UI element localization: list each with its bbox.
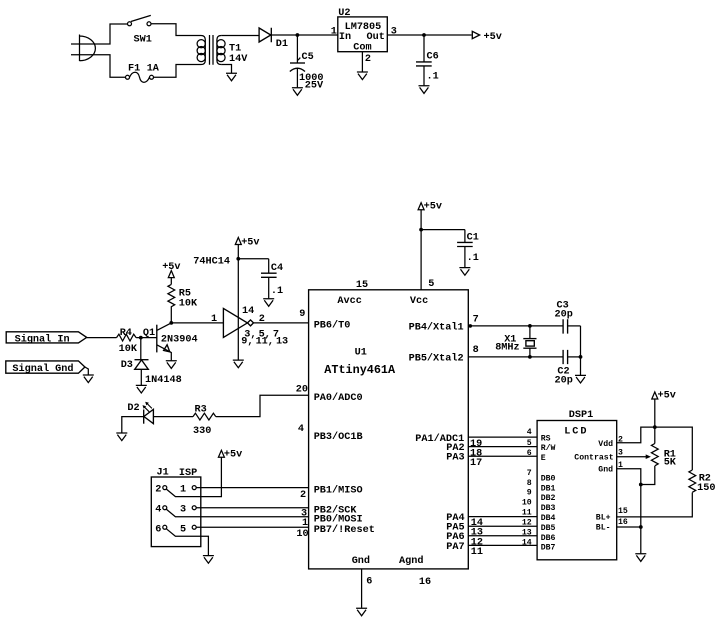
+5v symbol above C1 (418, 203, 424, 210)
svg-text:D3: D3 (121, 360, 133, 371)
transformer T1 (197, 35, 225, 65)
svg-text:ATtiny461A: ATtiny461A (324, 363, 396, 377)
wire C3 right down to C2 (580, 326, 582, 375)
node dot R1 bottom (639, 483, 643, 487)
capacitor C6 (416, 35, 432, 85)
svg-text:+5v: +5v (224, 450, 242, 461)
svg-text:DB4: DB4 (541, 514, 556, 523)
svg-text:3: 3 (391, 26, 397, 37)
power wire through inverter (237, 245, 239, 360)
ground C1 (459, 268, 470, 276)
ground 74HC14 (233, 360, 244, 368)
svg-text:.1: .1 (427, 71, 439, 82)
svg-text:.1: .1 (467, 253, 479, 264)
svg-text:10: 10 (296, 529, 308, 540)
pin 3 circle (192, 506, 196, 510)
svg-text:C1: C1 (467, 232, 479, 243)
svg-text:PB7/!Reset: PB7/!Reset (314, 524, 375, 536)
svg-text:17: 17 (470, 458, 482, 469)
wire R1 bottom (641, 466, 655, 485)
ground Q1 emitter (166, 361, 177, 369)
wire R2 to BL+ (617, 493, 693, 517)
wire pin7 to C3 (468, 325, 563, 327)
svg-text:C6: C6 (427, 52, 439, 63)
ground LCD rail (635, 554, 646, 562)
wire D1 to U2 (271, 34, 338, 36)
svg-text:+5v: +5v (484, 32, 502, 43)
svg-text:9: 9 (527, 489, 532, 498)
svg-text:Agnd: Agnd (399, 555, 423, 567)
fuse F1 (126, 72, 154, 82)
svg-text:6: 6 (366, 577, 372, 588)
svg-text:5: 5 (180, 524, 186, 535)
IC U1 ATtiny461A (309, 290, 469, 569)
svg-text:PB3/OC1B: PB3/OC1B (314, 431, 363, 443)
svg-text:4: 4 (298, 424, 304, 435)
svg-text:PB5/Xtal2: PB5/Xtal2 (409, 353, 464, 365)
ground C5 (292, 88, 303, 96)
svg-text:BL+: BL+ (596, 514, 611, 523)
svg-text:Vdd: Vdd (598, 439, 613, 449)
AC plug P (71, 35, 95, 62)
capacitor C1 (457, 230, 473, 268)
svg-text:74HC14: 74HC14 (193, 256, 230, 267)
diode D3 (135, 338, 149, 385)
wire fuse to T1 (154, 65, 202, 78)
svg-text:10K: 10K (179, 299, 198, 310)
node dot BL- (639, 525, 643, 529)
wire PA7 to DB7 (468, 544, 537, 546)
svg-text:10K: 10K (119, 344, 138, 355)
wire pin2 to +5v (166, 457, 221, 496)
svg-text:.1: .1 (271, 286, 283, 297)
display DSP1 LCD (537, 421, 617, 560)
svg-text:PA0/ADC0: PA0/ADC0 (314, 392, 363, 404)
svg-text:Out: Out (367, 32, 385, 43)
resistor R5 (168, 278, 175, 323)
capacitor C4 (261, 259, 277, 299)
capacitor C3 (563, 319, 580, 333)
wire PA5 to DB5 (468, 525, 537, 527)
wire to C1 (421, 229, 465, 231)
svg-text:5: 5 (527, 439, 532, 448)
resistor R2 (689, 470, 696, 492)
svg-text:U1: U1 (355, 347, 367, 358)
svg-text:1: 1 (211, 314, 217, 325)
svg-text:14: 14 (242, 306, 254, 317)
LED D2 (122, 402, 154, 433)
wire pin8 to C2 (468, 356, 563, 358)
node dot C1 branch (419, 228, 423, 232)
svg-text:8MHz: 8MHz (495, 342, 519, 353)
svg-text:9: 9 (299, 309, 305, 320)
node dot C6 (422, 33, 426, 37)
crystal X1 (523, 326, 536, 357)
wire plug to switch (92, 24, 128, 44)
svg-text:5: 5 (428, 279, 434, 290)
svg-text:DB6: DB6 (541, 534, 556, 543)
dot pin7 (469, 324, 473, 328)
wire T1 secondary to ground (221, 65, 231, 74)
svg-text:13: 13 (522, 528, 532, 537)
svg-text:7: 7 (527, 469, 532, 478)
pin 5 circle (192, 525, 196, 529)
svg-text:Q1: Q1 (143, 328, 155, 339)
node dot D1/C5 (296, 33, 300, 37)
pin 1 circle (192, 486, 196, 490)
ground T1 (226, 73, 237, 81)
connector J1 ISP (151, 477, 201, 547)
svg-text:8: 8 (527, 479, 532, 488)
wire U2 out to +5v (387, 34, 471, 36)
svg-text:15: 15 (618, 507, 628, 516)
node dot C2 right (579, 355, 583, 359)
wire plug to fuse (92, 55, 126, 78)
svg-text:DB7: DB7 (541, 544, 556, 553)
+5v output arrow (472, 31, 479, 38)
node dot +5v rail (653, 425, 657, 429)
wire collector to inverter (171, 322, 223, 324)
wire +5v to U1 Vcc (420, 210, 422, 290)
+5v symbol 74HC14 (235, 238, 241, 245)
node dot xtal top (528, 324, 532, 328)
svg-text:DB1: DB1 (541, 484, 556, 493)
svg-text:6: 6 (155, 524, 161, 535)
capacitor C2 (563, 350, 580, 364)
svg-text:2: 2 (300, 490, 306, 501)
wire to C4 (238, 258, 268, 260)
svg-text:14: 14 (522, 538, 532, 547)
wire PA1 to RS (468, 436, 537, 438)
ground D2 (116, 433, 127, 441)
svg-text:10: 10 (522, 499, 532, 508)
svg-text:7: 7 (473, 315, 479, 326)
svg-text:15: 15 (356, 280, 368, 291)
wire R4 to Q1 base (136, 337, 157, 339)
svg-text:J1: J1 (157, 467, 169, 478)
svg-text:150: 150 (697, 483, 715, 494)
ground Signal Gnd (83, 375, 94, 383)
svg-text:C5: C5 (302, 52, 314, 63)
wire T1 to D1 (221, 35, 259, 37)
ground D3 (136, 385, 147, 393)
wire Signal Gnd to ground (85, 367, 88, 375)
wire rail to R2 (655, 427, 693, 470)
svg-text:LCD: LCD (564, 427, 588, 438)
wire pin1 to PB1/MISO (196, 487, 308, 489)
svg-text:16: 16 (618, 518, 628, 527)
svg-text:20p: 20p (555, 375, 573, 386)
svg-text:DB3: DB3 (541, 504, 556, 513)
pin 6 circle (163, 525, 167, 529)
switch SW1 (128, 15, 152, 25)
svg-text:3: 3 (180, 505, 186, 516)
ground C4 (263, 299, 274, 307)
svg-text:Contrast: Contrast (574, 454, 613, 463)
svg-text:DB5: DB5 (541, 524, 556, 533)
svg-text:E: E (541, 454, 546, 463)
svg-text:PB0/MOSI: PB0/MOSI (314, 514, 363, 526)
wire BL- to rail (617, 526, 641, 528)
svg-text:8: 8 (473, 345, 479, 356)
resistor R4 (117, 334, 137, 341)
capacitor C5 (290, 35, 305, 87)
wire D2 to R3 (153, 416, 193, 418)
svg-text:16: 16 (419, 577, 431, 588)
wire +5v down (654, 399, 656, 444)
svg-text:4: 4 (527, 428, 532, 437)
svg-text:14V: 14V (229, 54, 248, 65)
node dot collector (169, 321, 173, 325)
pin 4 circle (163, 506, 167, 510)
svg-text:20p: 20p (555, 309, 573, 320)
U1 Gnd wire (361, 569, 363, 608)
svg-text:U2: U2 (338, 8, 350, 19)
Signal Gnd flag (6, 361, 85, 375)
svg-text:R/W: R/W (541, 443, 556, 453)
svg-text:D2: D2 (127, 403, 139, 414)
wire Gnd pin rail (617, 469, 641, 554)
svg-text:DB2: DB2 (541, 494, 556, 503)
svg-text:D1: D1 (276, 39, 288, 50)
regulator U2 LM7805 (338, 17, 388, 52)
svg-text:R4: R4 (120, 328, 132, 339)
wire R3 to U1 PA0 (216, 395, 309, 416)
svg-text:Gnd: Gnd (352, 555, 370, 567)
wire PA3 to E (468, 455, 537, 457)
svg-text:DB0: DB0 (541, 474, 556, 483)
svg-text:PB4/Xtal1: PB4/Xtal1 (409, 322, 464, 334)
wire PA6 to DB6 (468, 535, 537, 537)
svg-text:2: 2 (155, 485, 161, 496)
svg-text:1N4148: 1N4148 (145, 375, 182, 386)
svg-text:R3: R3 (195, 404, 207, 415)
ground U1 (356, 608, 367, 616)
pin 2 of U2 to ground (361, 52, 363, 72)
wire Signal In to R4 (87, 337, 117, 339)
wire inverter out to U1 pin9 (253, 322, 308, 324)
wire pin5 to PB7/Reset (196, 526, 308, 528)
svg-text:11: 11 (522, 509, 532, 518)
transistor Q1 2N3904 (157, 323, 172, 361)
wire pin3 to PB2/SCK (196, 507, 308, 509)
node dot base/D3 (139, 336, 143, 340)
resistor R3 (193, 413, 216, 420)
wire PA2 to R/W (468, 446, 537, 448)
svg-text:PB1/MISO: PB1/MISO (314, 484, 363, 496)
svg-text:1A: 1A (147, 63, 160, 74)
svg-text:+5v: +5v (658, 391, 676, 402)
svg-text:Vcc: Vcc (410, 296, 428, 307)
svg-text:1: 1 (180, 485, 186, 496)
svg-text:Gnd: Gnd (598, 465, 613, 475)
svg-text:2: 2 (365, 54, 371, 65)
Signal In flag (6, 332, 87, 346)
wire rail to Vdd (617, 427, 655, 443)
svg-text:In: In (339, 32, 351, 43)
+5v symbol R1 (652, 392, 658, 399)
ground crystal caps (575, 375, 586, 383)
svg-text:Signal In: Signal In (15, 333, 70, 345)
node dot xtal bottom (528, 355, 532, 359)
svg-text:DSP1: DSP1 (569, 410, 593, 421)
svg-text:11: 11 (471, 547, 483, 558)
svg-text:20: 20 (296, 384, 308, 395)
svg-text:PA7: PA7 (446, 542, 464, 553)
diode D1 (259, 28, 271, 42)
svg-text:4: 4 (155, 505, 161, 516)
svg-text:+5v: +5v (241, 238, 259, 249)
svg-text:Signal Gnd: Signal Gnd (12, 363, 73, 375)
wire switch to T1 (151, 24, 201, 36)
svg-text:1: 1 (331, 26, 337, 37)
svg-text:SW1: SW1 (134, 34, 152, 45)
svg-text:PA3: PA3 (446, 453, 464, 464)
svg-text:PB6/T0: PB6/T0 (314, 320, 351, 332)
svg-text:2: 2 (259, 314, 265, 325)
svg-text:BL-: BL- (596, 524, 611, 533)
pin 2 circle (163, 486, 167, 490)
wire PA4 to DB4 (468, 516, 537, 518)
+5v symbol ISP (218, 450, 224, 457)
svg-text:12: 12 (522, 519, 532, 528)
svg-text:ISP: ISP (179, 468, 197, 479)
ground J1 (203, 556, 214, 564)
svg-text:T1: T1 (229, 44, 241, 55)
ground C6 (419, 86, 430, 94)
svg-text:2N3904: 2N3904 (161, 335, 198, 346)
wire pin4 to PB0 (166, 509, 308, 517)
node dot C4 branch (236, 257, 240, 261)
svg-text:Com: Com (353, 42, 371, 53)
svg-text:330: 330 (193, 426, 211, 437)
inverter U3 74HC14 gate (223, 308, 253, 337)
svg-text:9, 11, 13: 9, 11, 13 (241, 336, 288, 347)
svg-text:Avcc: Avcc (337, 296, 361, 307)
svg-text:6: 6 (527, 449, 532, 458)
svg-text:RS: RS (541, 434, 551, 443)
wire pin6 to ground (166, 529, 208, 556)
svg-text:1: 1 (302, 518, 308, 529)
svg-text:C4: C4 (271, 263, 283, 274)
potentiometer R1 (617, 444, 658, 466)
svg-text:25V: 25V (305, 80, 324, 91)
svg-text:F1: F1 (128, 63, 140, 74)
svg-text:+5v: +5v (424, 202, 442, 213)
svg-text:5K: 5K (664, 458, 677, 469)
